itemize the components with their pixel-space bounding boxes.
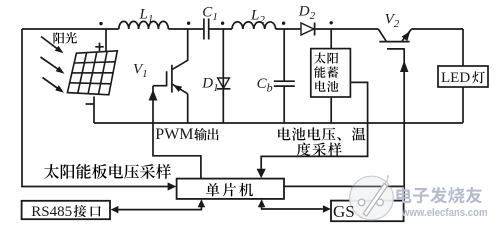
RS485-MCU link wires: [118, 207, 201, 210]
watermark logo circle: [350, 175, 405, 220]
svg-text:RS485: RS485: [31, 204, 72, 220]
GSM module box: [331, 201, 404, 222]
capacitor C1: [203, 19, 205, 40]
battery bottom lead: [330, 97, 332, 123]
MCU right wire to V2 gate: [284, 185, 404, 187]
diode D1: [201, 29, 230, 123]
arrow into MCU left: [168, 182, 177, 190]
wire L2 to D2: [276, 28, 301, 30]
diode D2: [301, 23, 314, 35]
wire top rail left segment: [22, 28, 119, 30]
battery sense wire to MCU: [261, 82, 367, 171]
solar panel (tilted grid): [67, 51, 117, 95]
LED lamp box: [438, 66, 488, 87]
svg-text:GS: GS: [333, 202, 355, 221]
wire C1 to L2: [209, 28, 232, 30]
wire D2 to V2: [315, 28, 378, 30]
svg-text:PWM: PWM: [155, 126, 193, 143]
sunlight label: [53, 32, 64, 43]
left sense wire from top rail: [22, 29, 169, 187]
solar panel minus lead: [86, 103, 94, 105]
solar panel plus lead: [105, 29, 107, 52]
bottom rail (ground return): [94, 122, 463, 124]
transistor V1 (IGBT): [133, 29, 188, 123]
capacitor Cb: [257, 29, 295, 123]
battery top lead: [330, 29, 332, 49]
label battery voltage/temperature sampling: [278, 127, 290, 140]
svg-text:LED: LED: [441, 70, 470, 86]
node dots on top rail: [99, 22, 102, 25]
V2 gate drive vertical with up arrow: [403, 49, 405, 201]
svg-text:www.elecfans.com: www.elecfans.com: [401, 207, 487, 219]
transistor V2 (IGBT): [378, 12, 411, 49]
label solar panel voltage sampling: [44, 164, 59, 179]
wire L1 to C1: [168, 28, 203, 30]
watermark text elecfans: [396, 187, 411, 203]
wire LED to bottom rail: [462, 87, 464, 123]
MCU (single-chip computer) box: [177, 179, 284, 199]
solar storage battery box: [311, 49, 351, 97]
MCU-GSM link wires: [262, 206, 323, 209]
sunlight arrows: [41, 37, 64, 54]
wire right drop to LED: [462, 29, 464, 67]
inductor L2: [232, 22, 276, 29]
inductor L1: [119, 21, 168, 29]
RS485 interface box: [22, 201, 110, 220]
PWM gate drive wire with up arrow: [153, 86, 201, 179]
wire V2 to top right corner: [411, 28, 463, 30]
